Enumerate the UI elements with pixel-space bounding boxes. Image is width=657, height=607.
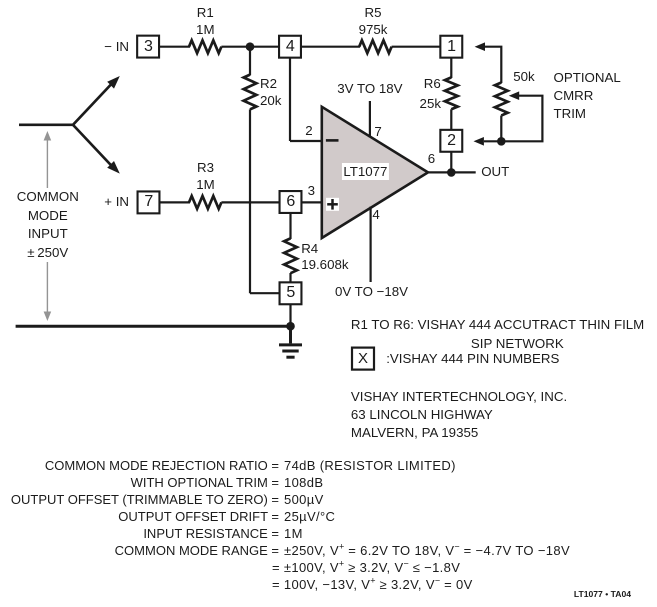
pin box 7 xyxy=(138,191,160,213)
label R4 xyxy=(301,240,318,258)
wire arrow toward +IN xyxy=(73,124,120,173)
pin box digit 1 xyxy=(447,38,456,56)
wire box5 to ground node xyxy=(289,305,291,327)
wire output xyxy=(428,171,476,173)
wire to box5 left xyxy=(250,292,280,294)
wire R3 to box6 xyxy=(221,201,280,203)
note box digit X xyxy=(358,350,368,368)
wire pot bottom xyxy=(500,116,502,142)
label R3 xyxy=(197,159,214,177)
pin number 2 xyxy=(305,122,312,140)
wire box3 to R1 xyxy=(160,46,190,48)
wire arrow toward -IN xyxy=(73,76,120,125)
note R1 TO R6 xyxy=(351,316,644,334)
pin box digit 6 xyxy=(286,193,295,211)
node junction ground xyxy=(286,322,295,331)
resistor R6 xyxy=(445,77,458,109)
value 20k xyxy=(260,92,281,110)
wire box6 down to R4 xyxy=(289,213,291,239)
arrow to box1 xyxy=(475,42,485,51)
wire box7 to R3 xyxy=(160,201,190,203)
label +IN xyxy=(104,193,129,211)
footnote LT1077 TA04 xyxy=(574,587,631,602)
wire box4 to R5 xyxy=(301,46,360,48)
pin box digit 3 xyxy=(144,38,153,56)
spec line 1 xyxy=(0,457,456,474)
wire common-mode top rail xyxy=(19,124,74,127)
resistor R4 xyxy=(284,238,297,273)
potentiometer 50k xyxy=(495,83,508,116)
spec line 4 xyxy=(0,508,335,525)
spec line 5 xyxy=(0,525,303,542)
ground xyxy=(279,326,302,357)
note SIP NETWORK xyxy=(471,335,564,353)
label LT1077 xyxy=(342,163,388,180)
wiper arrow xyxy=(509,91,519,100)
pin number 3 xyxy=(308,182,315,200)
value 1M (R1) xyxy=(196,21,214,39)
pin box 5 xyxy=(280,282,302,304)
spec line 7 xyxy=(272,559,460,576)
spec line 2 xyxy=(0,474,323,491)
note MALVERN PA xyxy=(351,424,478,442)
wire box1 to R6 xyxy=(450,58,452,78)
spec line 3 xyxy=(0,491,324,508)
pin 4 supply line xyxy=(370,207,372,283)
pin box 4 xyxy=(279,36,301,58)
label OPTIONAL CMRR TRIM xyxy=(554,69,621,123)
wire pot top xyxy=(484,47,501,83)
label 0V TO -18V xyxy=(335,283,408,301)
wire R6 to box2 xyxy=(450,109,452,129)
node junction R1/R2/pin4 xyxy=(246,42,255,51)
minus symbol xyxy=(326,139,339,142)
label R1 xyxy=(197,4,214,22)
pin box 2 xyxy=(440,130,462,152)
op-amp U1 LT1077 xyxy=(322,107,428,238)
pin box digit 7 xyxy=(144,193,153,211)
pin number 4 xyxy=(372,206,379,224)
pin box 3 xyxy=(137,36,159,58)
value 1M (R3) xyxy=(196,176,214,194)
wire box6 to non-inverting input xyxy=(301,201,322,203)
note VISHAY INTERTECHNOLOGY xyxy=(351,388,567,406)
node junction output xyxy=(447,168,456,177)
value 50k xyxy=(513,68,534,86)
wire R5 to box1 xyxy=(392,46,440,48)
note VISHAY PIN NUMBERS xyxy=(386,350,559,368)
pin box digit 2 xyxy=(447,132,456,150)
pin 7 supply line xyxy=(369,101,371,138)
note 63 LINCOLN HIGHWAY xyxy=(351,406,493,424)
measurement arrow ±250V (gray) xyxy=(44,131,52,321)
wire bottom common rail xyxy=(16,325,291,328)
pin box 1 xyxy=(440,36,462,58)
label R5 xyxy=(365,4,382,22)
pin number 7 xyxy=(374,123,381,141)
pin box digit 5 xyxy=(286,284,295,302)
resistor R5 xyxy=(359,40,391,53)
arrow to box2 xyxy=(474,137,484,146)
wire R2 down to box5 level xyxy=(249,109,251,293)
wire R4 to box5 xyxy=(289,273,291,282)
spec line 8 xyxy=(272,576,473,593)
value 975k xyxy=(359,21,388,39)
wire box2 to output xyxy=(450,151,452,172)
pin box 6 xyxy=(280,191,302,213)
resistor R2 xyxy=(244,75,257,110)
wire to inverting input xyxy=(290,140,322,142)
wire box4 down xyxy=(289,58,291,141)
pin box digit 4 xyxy=(286,38,295,56)
wire node to R2 xyxy=(249,47,251,75)
spec line 6 xyxy=(0,542,570,559)
value 25k xyxy=(420,95,441,113)
wire R1 to box4 xyxy=(221,46,279,48)
pin number 6 xyxy=(428,150,435,168)
resistor R1 xyxy=(189,40,221,53)
value 19.608k xyxy=(301,256,348,274)
wire wiper xyxy=(501,96,542,142)
note box X xyxy=(352,348,374,370)
node junction pot/box2 xyxy=(497,137,506,146)
label -IN xyxy=(104,38,129,56)
label R2 xyxy=(260,75,277,93)
resistor R3 xyxy=(189,196,221,209)
label 3V TO 18V xyxy=(337,80,402,98)
label COMMON MODE INPUT xyxy=(14,188,82,262)
label R6 xyxy=(424,75,441,93)
label OUT xyxy=(481,163,509,181)
wire node to arrow xyxy=(484,140,501,142)
plus symbol xyxy=(326,198,339,211)
